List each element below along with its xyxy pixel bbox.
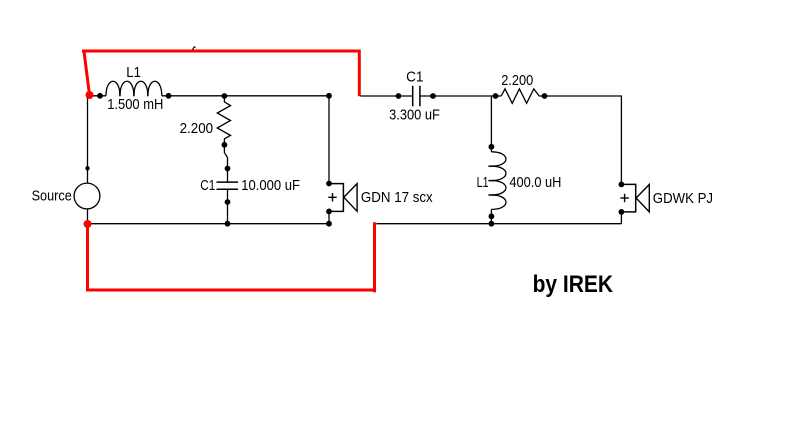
svg-text:GDWK PJ: GDWK PJ	[653, 190, 713, 207]
node C1 bottom junction	[225, 221, 231, 227]
wire source vertical upper	[87, 96, 89, 183]
svg-text:L1: L1	[126, 64, 141, 81]
coil cusp ticks	[119, 91, 121, 96]
node C1h left	[396, 93, 402, 99]
node R2 right	[542, 93, 548, 99]
node C1 bottom terminal	[225, 199, 231, 205]
node L1v bottom terminal	[489, 213, 495, 219]
tick mark artifact	[193, 47, 196, 50]
wire bottom rail	[88, 223, 330, 225]
speaker U2 GDWK plus	[620, 197, 628, 199]
svg-text:C1: C1	[200, 177, 215, 194]
node top wire L1 left	[97, 93, 103, 99]
svg-text:3.300 uF: 3.300 uF	[389, 107, 440, 124]
node top wire L1 right	[166, 93, 172, 99]
node GDN bottom	[326, 209, 332, 215]
svg-text:400.0 uH: 400.0 uH	[509, 174, 561, 191]
svg-text:GDN 17 scx: GDN 17 scx	[361, 189, 433, 206]
speaker U1 GDN cone	[344, 184, 357, 212]
wire GDWK bottom stub	[620, 212, 622, 224]
inductor L1 horizontal coil	[106, 81, 162, 96]
node C1h right	[430, 93, 436, 99]
svg-text:by IREK: by IREK	[533, 271, 614, 298]
wire GDN bottom stub	[328, 211, 330, 223]
node GDWK top	[619, 182, 625, 188]
node GDWK bottom	[619, 209, 625, 215]
wire C1 top stub	[227, 169, 229, 183]
capacitor C1 horizontal plates	[412, 86, 414, 107]
source V1 circle	[74, 183, 100, 209]
node GDN top	[326, 181, 332, 187]
svg-text:Source: Source	[32, 187, 72, 204]
svg-text:1.500 mH: 1.500 mH	[107, 96, 163, 113]
coil cusp ticks	[488, 165, 494, 167]
wire top-left node to L1	[88, 95, 107, 97]
wire top right from red	[360, 95, 412, 97]
node top wire speaker drop	[326, 93, 332, 99]
svg-text:10.000 uF: 10.000 uF	[241, 177, 300, 194]
svg-text:L1: L1	[477, 174, 489, 191]
resistor R1 2.200 vertical	[217, 96, 230, 145]
wire C1 bottom stub	[227, 189, 229, 223]
wire bottom rail right	[376, 223, 621, 225]
wire red top-left diagonal	[84, 52, 90, 96]
wire red top-right vertical	[358, 51, 361, 96]
node GDN bottom junction	[326, 221, 332, 227]
svg-text:2.200: 2.200	[180, 120, 214, 137]
wire R2 to GDWK corner	[545, 96, 622, 184]
node R1 bottom	[222, 142, 228, 148]
node C1 top terminal	[225, 166, 231, 172]
node R2 left	[493, 93, 499, 99]
speaker U2 GDWK box	[621, 184, 635, 212]
node R1 top	[222, 93, 228, 99]
svg-text:2.200: 2.200	[501, 72, 533, 89]
wire source bottom stub	[87, 209, 89, 224]
node red top-left	[86, 91, 94, 99]
wire red top horizontal	[82, 50, 361, 53]
node source top terminal	[85, 166, 89, 170]
node L1v bottom junction	[489, 221, 495, 227]
inductor L1 vertical coil	[491, 152, 506, 210]
wire speaker GDN vertical drop	[328, 96, 330, 184]
wire L1 to speaker drop	[162, 95, 329, 97]
resistor R2 2.200 horizontal	[501, 89, 544, 104]
wire L1v bottom stub	[490, 209, 492, 223]
node L1v top terminal	[489, 144, 495, 150]
speaker U1 GDN plus	[328, 196, 336, 198]
svg-text:C1: C1	[406, 69, 423, 86]
wire R1 to C1 jog	[224, 145, 227, 169]
node red source bottom	[84, 220, 92, 228]
speaker U1 GDN box	[329, 184, 343, 212]
wire red bottom loop	[88, 222, 375, 290]
wire C1h to R2	[421, 95, 502, 97]
capacitor C1 vertical plates	[217, 181, 239, 183]
speaker U2 GDWK cone	[636, 185, 649, 212]
wire L1v drop	[490, 96, 492, 152]
